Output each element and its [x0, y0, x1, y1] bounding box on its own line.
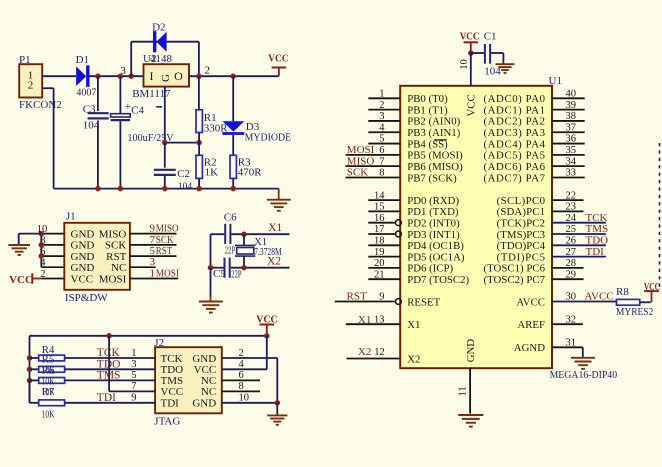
svg-text:FKCON2: FKCON2	[19, 99, 62, 111]
svg-text:25: 25	[566, 224, 577, 235]
node: VCC stem junction	[264, 333, 270, 339]
capacitor C5 22P	[211, 258, 290, 281]
svg-text:TCK: TCK	[97, 347, 121, 359]
node: R6 tap	[27, 378, 33, 384]
capacitor C4 100uF/25V (electrolytic)	[111, 76, 174, 188]
svg-text:MOSI: MOSI	[347, 144, 375, 156]
svg-text:C5: C5	[213, 268, 226, 280]
wire D2 bypass top	[131, 41, 199, 43]
svg-text:39: 39	[566, 100, 577, 111]
svg-text:VCC: VCC	[268, 53, 288, 65]
power VCC (U1 top) and C1	[460, 31, 497, 54]
svg-text:18: 18	[374, 236, 385, 247]
svg-text:RST: RST	[347, 291, 367, 303]
power VCC (J1 pin2, horizontal)	[9, 273, 41, 286]
resistor R3 470R	[230, 155, 262, 188]
svg-text:X2: X2	[407, 353, 420, 365]
svg-text:SCK: SCK	[105, 240, 126, 252]
X2 pin wire	[347, 347, 401, 359]
svg-text:(SDA)PC1: (SDA)PC1	[497, 206, 545, 218]
U1 right pin wires 22-29	[552, 200, 606, 279]
wire P1 pin2 down to ground rail	[42, 88, 53, 188]
svg-text:O: O	[174, 69, 183, 83]
svg-text:MOSI: MOSI	[99, 273, 127, 285]
svg-text:TDO: TDO	[586, 235, 609, 247]
svg-text:22P: 22P	[225, 246, 235, 257]
diode D3 MYDIODE	[223, 76, 292, 155]
power VCC (top left)	[268, 53, 288, 77]
svg-text:C1: C1	[484, 31, 497, 43]
svg-text:PB0 (T0): PB0 (T0)	[407, 93, 448, 105]
svg-text:37: 37	[566, 122, 577, 133]
svg-text:7: 7	[150, 234, 156, 246]
svg-text:27: 27	[566, 247, 577, 258]
svg-text:11: 11	[458, 386, 469, 396]
svg-text:D1: D1	[76, 54, 89, 66]
svg-text:AREF: AREF	[517, 319, 545, 331]
wire C6 left down to C5	[210, 234, 212, 268]
svg-text:VCC: VCC	[9, 274, 33, 286]
svg-text:23: 23	[566, 202, 577, 213]
connector J1 ISP&DW	[64, 211, 130, 305]
svg-text:(TDI)PC5: (TDI)PC5	[497, 251, 545, 263]
node: R4 tap	[27, 355, 33, 361]
svg-text:36: 36	[566, 134, 577, 145]
svg-text:(TDO)PC4: (TDO)PC4	[497, 240, 546, 252]
svg-text:X2: X2	[358, 346, 371, 358]
node: pin10/ground junction	[275, 400, 281, 406]
svg-text:MYDIODE: MYDIODE	[245, 132, 292, 144]
ground symbol (J1)	[8, 244, 30, 246]
connector P1	[19, 54, 62, 111]
resistor R7 10K	[30, 380, 156, 405]
node: R3 on rail	[230, 186, 236, 192]
svg-text:8: 8	[40, 235, 45, 246]
svg-text:9: 9	[150, 223, 156, 235]
svg-text:GND: GND	[465, 339, 477, 363]
inversion bubble pin16	[396, 220, 402, 226]
JTAG net labels	[97, 347, 121, 404]
U1 right pin numbers 40-33	[566, 89, 577, 179]
svg-text:MOSI: MOSI	[156, 268, 179, 280]
svg-text:3: 3	[150, 256, 156, 268]
svg-text:(SCL)PC0: (SCL)PC0	[497, 195, 545, 207]
svg-text:GND: GND	[192, 353, 216, 365]
dashed boundary line at right edge	[659, 143, 661, 287]
svg-text:TDI: TDI	[586, 246, 605, 258]
node: R1/R2 junction	[196, 140, 202, 146]
svg-text:GND: GND	[192, 398, 216, 410]
svg-text:PD3 (INT1): PD3 (INT1)	[407, 229, 460, 241]
J1 right net labels	[150, 223, 180, 280]
svg-text:MISO: MISO	[99, 228, 127, 240]
regulator U2 BM1117	[120, 53, 210, 100]
regulator ground pin down	[164, 87, 166, 143]
svg-text:PB1 (T1): PB1 (T1)	[407, 104, 448, 116]
node: crystal top	[241, 231, 247, 237]
resistor R2 1K	[196, 143, 218, 189]
svg-text:GND: GND	[71, 228, 95, 240]
svg-text:24: 24	[566, 213, 577, 224]
svg-text:31: 31	[566, 338, 577, 349]
U1 left pin wires pins 14-21	[368, 200, 400, 279]
svg-text:MYRES2: MYRES2	[616, 306, 653, 318]
ground symbol (C1), smaller	[496, 63, 515, 65]
svg-text:4: 4	[379, 122, 385, 133]
svg-text:SCK: SCK	[347, 167, 368, 179]
svg-text:3: 3	[379, 111, 384, 122]
svg-text:J1: J1	[66, 211, 76, 223]
svg-text:TCK: TCK	[161, 353, 183, 365]
svg-text:X2: X2	[267, 256, 281, 268]
wire VCC to U1 pin10	[470, 53, 472, 86]
top VCC rail (JTAG)	[30, 335, 267, 337]
svg-text:3: 3	[120, 65, 126, 77]
svg-text:7: 7	[379, 156, 384, 167]
capacitor C1 104	[471, 44, 504, 78]
svg-text:P1: P1	[19, 54, 31, 66]
svg-text:GND: GND	[71, 262, 95, 274]
svg-text:5: 5	[379, 134, 384, 145]
wire reg-gnd to R1/R2 node	[165, 142, 199, 144]
AREF pin wire	[552, 314, 583, 325]
svg-text:40: 40	[566, 89, 577, 100]
diode D2 4148	[152, 22, 167, 53]
svg-text:PB6 (MISO): PB6 (MISO)	[407, 161, 463, 173]
svg-text:TMS: TMS	[586, 223, 609, 235]
svg-text:NC: NC	[201, 386, 216, 398]
power VCC (R8)	[644, 281, 660, 302]
svg-text:20: 20	[374, 258, 385, 269]
svg-text:(ADC2) PA2: (ADC2) PA2	[484, 116, 546, 128]
svg-text:TDI: TDI	[161, 398, 180, 410]
svg-text:34: 34	[566, 156, 577, 167]
node: C3 on rail	[95, 186, 101, 192]
svg-text:MISO: MISO	[347, 155, 375, 167]
svg-text:30: 30	[566, 292, 577, 303]
wire pin2 down to pin10	[276, 358, 278, 403]
svg-text:4148: 4148	[150, 53, 173, 65]
svg-text:PD0 (RXD): PD0 (RXD)	[407, 195, 459, 207]
svg-text:PB7 (SCK): PB7 (SCK)	[407, 172, 457, 184]
svg-text:PD2 (INT0): PD2 (INT0)	[407, 218, 460, 230]
node: D3 branch junction	[230, 73, 236, 79]
svg-text:33: 33	[566, 168, 577, 179]
svg-text:13: 13	[374, 314, 385, 325]
resistor R6 10K	[30, 378, 156, 384]
svg-text:(TCK)PC2: (TCK)PC2	[497, 218, 545, 230]
U1 pin names (right column)	[484, 93, 546, 354]
capacitor C3 104	[83, 76, 109, 188]
J1 right pin wires	[130, 234, 178, 279]
svg-text:X1: X1	[268, 222, 282, 234]
node: pin6	[39, 253, 45, 259]
svg-text:MISO: MISO	[156, 223, 179, 235]
svg-text:104: 104	[178, 181, 193, 193]
node: reg adj / C2 junction	[162, 140, 168, 146]
svg-text:17: 17	[374, 224, 385, 235]
svg-text:21: 21	[374, 269, 385, 280]
svg-text:1: 1	[150, 268, 156, 280]
U1 bottom GND pin 11	[458, 368, 471, 413]
wire D1 cathode to regulator input	[89, 75, 143, 77]
connector J2 JTAG	[154, 337, 222, 427]
node: pin7 branch on rail	[106, 333, 112, 339]
wire regulator output to VCC	[189, 75, 279, 77]
net labels TCK/TMS/TDO/TDI (right)	[586, 212, 609, 258]
J2 right wires	[222, 358, 277, 403]
ground symbol (power section)	[267, 189, 291, 211]
resistor R8 MYRES2	[616, 286, 653, 318]
svg-text:C6: C6	[224, 211, 237, 223]
ground symbol (AGND)	[571, 357, 595, 359]
svg-text:MEGA16-DIP40: MEGA16-DIP40	[550, 369, 618, 381]
svg-text:PD6 (ICP): PD6 (ICP)	[407, 263, 453, 275]
node: C4 tap junction	[118, 73, 124, 79]
wire VCC down to pin4	[266, 336, 268, 370]
inversion bubble pin17	[396, 231, 402, 237]
svg-text:(ADC4) PA4: (ADC4) PA4	[484, 138, 546, 150]
wire C1 to ground	[502, 53, 504, 64]
AGND pin wire	[552, 338, 583, 349]
wire down to ground	[210, 268, 212, 297]
svg-text:AVCC: AVCC	[516, 296, 545, 308]
svg-text:D2: D2	[152, 22, 165, 34]
svg-text:6: 6	[379, 145, 384, 156]
svg-text:1: 1	[379, 89, 384, 100]
svg-text:32: 32	[566, 314, 577, 325]
resistor R4 10K	[30, 355, 156, 361]
capacitor C6 22P	[211, 211, 290, 256]
svg-text:(ADC0) PA0: (ADC0) PA0	[484, 93, 546, 105]
wire D2 bypass down-right	[198, 42, 200, 76]
svg-text:AGND: AGND	[514, 342, 545, 354]
svg-text:12: 12	[374, 347, 385, 358]
svg-text:U1: U1	[549, 75, 562, 87]
svg-text:NC: NC	[111, 262, 126, 274]
svg-text:TDI: TDI	[97, 392, 116, 404]
svg-text:PB2 (AIN0): PB2 (AIN0)	[407, 116, 460, 128]
svg-text:PD4 (OC1B): PD4 (OC1B)	[407, 240, 464, 252]
node: VCC/C1 junction	[468, 50, 474, 56]
ground symbol (U1 GND pin)	[458, 414, 483, 416]
svg-text:PD1 (TXD): PD1 (TXD)	[407, 206, 459, 218]
J2 right pin numbers	[239, 348, 250, 404]
node: C4 on rail	[118, 186, 124, 192]
svg-text:38: 38	[566, 111, 577, 122]
wire P1 pin1 to D1	[42, 75, 76, 77]
U1 pin names (left column)	[407, 93, 469, 365]
svg-text:C4: C4	[131, 104, 144, 116]
node: R2 on rail	[196, 186, 202, 192]
wire D2 bypass up-left	[130, 42, 132, 76]
svg-text:15: 15	[374, 202, 385, 213]
svg-text:4: 4	[40, 258, 46, 269]
svg-text:10K: 10K	[42, 409, 55, 421]
svg-text:J2: J2	[154, 337, 164, 349]
svg-text:PD7 (TOSC2): PD7 (TOSC2)	[407, 274, 469, 286]
svg-text:VCC: VCC	[71, 273, 94, 285]
svg-text:R7: R7	[42, 386, 55, 398]
U1 left pin wires pins 1-5	[368, 98, 400, 143]
svg-text:22: 22	[566, 190, 577, 201]
U1 right pin wires 40-33	[552, 98, 585, 177]
svg-text:VCC: VCC	[161, 386, 184, 398]
wire J2 pin7 VCC	[109, 336, 155, 392]
svg-text:VCC: VCC	[465, 94, 477, 116]
svg-text:16: 16	[374, 213, 385, 224]
svg-text:(ADC1) PA1: (ADC1) PA1	[484, 104, 546, 116]
svg-text:C3: C3	[83, 103, 96, 115]
svg-text:(TOSC2) PC7: (TOSC2) PC7	[484, 274, 546, 286]
svg-text:8: 8	[379, 168, 384, 179]
U1 left pin numbers 14-21	[374, 190, 385, 280]
svg-text:35: 35	[566, 145, 577, 156]
capacitor C2 104	[154, 143, 193, 193]
resistor labels (overlapping as in original)	[42, 344, 55, 421]
node: crystal bottom	[241, 265, 247, 271]
net labels MOSI/MISO/SCK	[347, 144, 375, 179]
ground symbol (crystal)	[199, 295, 223, 313]
svg-text:10: 10	[459, 59, 470, 70]
svg-text:470R: 470R	[238, 167, 262, 179]
RESET pin wire with bubble	[335, 292, 402, 305]
AVCC pin wire	[552, 292, 617, 303]
svg-text:2: 2	[28, 80, 34, 92]
svg-text:PB3 (AIN1): PB3 (AIN1)	[407, 127, 460, 139]
node 2: regulator output junction (R1 branch)	[196, 73, 202, 79]
J2 left pin numbers	[131, 348, 136, 404]
svg-text:SCK: SCK	[156, 234, 174, 246]
node: pin8	[39, 242, 45, 248]
svg-text:I: I	[150, 69, 154, 83]
svg-text:(ADC3) PA3: (ADC3) PA3	[484, 127, 546, 139]
svg-text:RST: RST	[156, 245, 173, 257]
wire down to ground (JTAG)	[276, 403, 278, 415]
svg-text:6: 6	[40, 247, 45, 258]
diode D1 4007	[76, 54, 97, 98]
U1 left pin numbers 1-8	[379, 89, 385, 179]
svg-text:X1: X1	[358, 314, 371, 326]
svg-text:22P: 22P	[231, 270, 241, 281]
svg-text:104: 104	[83, 119, 100, 131]
svg-text:G: G	[160, 74, 172, 82]
svg-text:1K: 1K	[205, 166, 219, 178]
svg-text:VCC: VCC	[460, 31, 480, 43]
svg-text:AVCC: AVCC	[585, 291, 614, 303]
wire AGND to ground	[582, 347, 584, 357]
node: C5/ground junction	[208, 265, 214, 271]
svg-text:TCK: TCK	[586, 212, 608, 224]
crystal X1 7.3728M	[235, 234, 282, 268]
svg-text:28: 28	[566, 258, 577, 269]
svg-text:+: +	[125, 101, 132, 113]
svg-text:29: 29	[566, 269, 577, 280]
svg-text:(TMS)PC3: (TMS)PC3	[497, 229, 545, 241]
svg-text:19: 19	[374, 247, 385, 258]
svg-text:2: 2	[204, 65, 210, 77]
svg-text:26: 26	[566, 236, 577, 247]
J1 left pin wires	[41, 234, 64, 279]
left resistor rail	[29, 336, 31, 403]
svg-text:RESET: RESET	[407, 296, 440, 308]
svg-text:14: 14	[374, 190, 385, 201]
svg-text:GND: GND	[71, 240, 95, 252]
svg-text:X1: X1	[407, 319, 420, 331]
svg-text:JTAG: JTAG	[154, 415, 180, 427]
resistor R1 330R	[196, 76, 228, 142]
node: pin10/gnd	[39, 231, 45, 237]
svg-text:PB5 (MOSI): PB5 (MOSI)	[407, 150, 463, 162]
svg-text:PD5 (OC1A): PD5 (OC1A)	[407, 251, 465, 263]
node: R5 tap	[27, 367, 33, 373]
svg-text:R8: R8	[616, 286, 629, 298]
resistor R5 10K	[30, 366, 156, 372]
svg-text:(ADC6) PA6: (ADC6) PA6	[484, 161, 546, 173]
ground rail (bottom of power section)	[54, 188, 279, 190]
svg-text:C2: C2	[177, 168, 190, 180]
svg-text:TMS: TMS	[97, 369, 121, 381]
IC U1 MEGA16-DIP40	[400, 75, 617, 381]
power VCC (JTAG)	[256, 314, 278, 336]
node: C2 on rail	[162, 186, 168, 192]
svg-text:(TOSC1) PC6: (TOSC1) PC6	[484, 263, 546, 275]
svg-text:(ADC7) PA7: (ADC7) PA7	[484, 172, 546, 184]
U1 right pin numbers 22-29	[566, 190, 577, 280]
svg-text:2: 2	[379, 100, 384, 111]
svg-text:ISP&DW: ISP&DW	[65, 292, 108, 304]
X1 pin wire	[346, 314, 400, 325]
svg-text:4007: 4007	[76, 87, 96, 99]
svg-text:(ADC5) PA5: (ADC5) PA5	[484, 150, 546, 162]
wire to ground symbol	[19, 234, 42, 245]
wire J1 gnd bus vertical	[40, 234, 42, 268]
node: C3 tap junction	[95, 73, 101, 79]
svg-text:9: 9	[379, 292, 384, 303]
ground symbol (JTAG)	[267, 414, 287, 416]
J1 left pin numbers	[37, 224, 48, 280]
node 3: regulator input junction	[128, 73, 134, 79]
U1 left pin wires pins 6-8 (MOSI/MISO/SCK)	[346, 155, 401, 178]
